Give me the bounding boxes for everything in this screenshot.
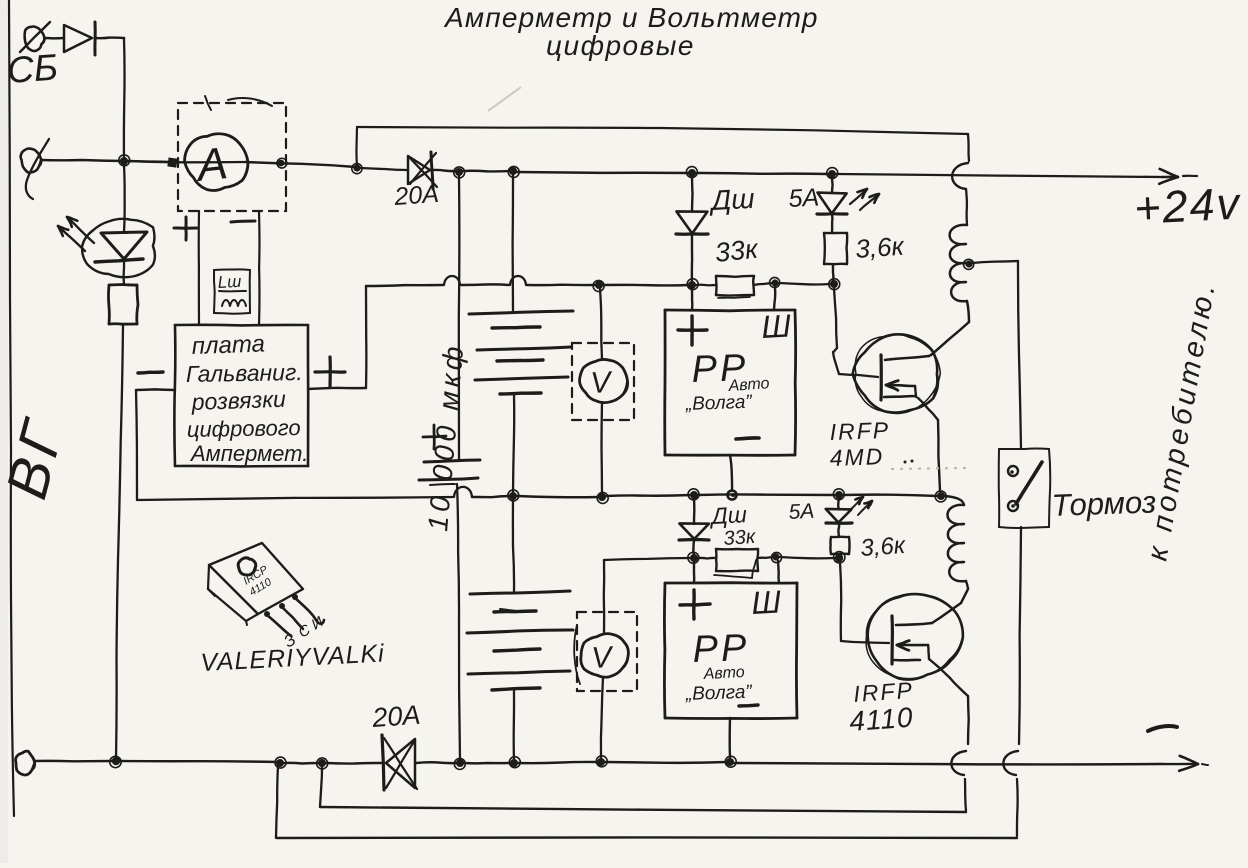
PP2 text Авто (702, 664, 745, 683)
battery GB1 plate1 long (469, 311, 573, 314)
MOSFET Q2 source arrow (894, 641, 929, 661)
wire 7L2 lead (837, 499, 840, 509)
svg-text:плата: плата (191, 330, 265, 360)
svg-text:Гальваниг.: Гальваниг. (186, 359, 303, 387)
wire tap corner down to switch (1018, 261, 1021, 448)
battery GB2 plate6 short (492, 688, 540, 690)
wire battery2 bottom stub (513, 690, 516, 761)
junction dot LED chain (110, 756, 121, 767)
MOSFET Q1 circle (853, 334, 941, 413)
label IRFP 4110 (848, 677, 914, 737)
wire 7L1 lead (831, 178, 834, 193)
svg-text:+24v: +24v (1133, 177, 1243, 234)
wire V2 top corner (604, 558, 691, 634)
wire 7L1 to R3.6k (831, 214, 834, 233)
wire mid bus seg2 (472, 496, 510, 497)
battery GB1 plate3 long (477, 347, 571, 350)
board minus sign (138, 372, 163, 373)
wire corner down to bus (123, 38, 126, 161)
wire G2 node to gate (840, 562, 889, 643)
svg-text:4МD: 4МD (829, 443, 884, 471)
terminal IN+ (21, 139, 49, 199)
wire mid bus end to coil2 (945, 496, 964, 505)
battery GB1 plate5 long (475, 377, 568, 380)
title line 2 цифровые (546, 30, 695, 61)
wire PP1 plus lead (691, 289, 694, 310)
svg-text:5А: 5А (788, 183, 820, 213)
svg-text:Ампермет.: Ампермет. (189, 441, 308, 466)
hop mid bus over cap (454, 487, 472, 497)
label +24v (1133, 177, 1243, 234)
MOSFET Q2 channel top (896, 623, 932, 625)
voltmeter V2 circle (581, 634, 629, 678)
capacitor C1 plate bottom (419, 478, 478, 485)
LED triangle (101, 232, 147, 259)
wire mid bus seg6 (843, 495, 938, 496)
wire board plus horizontal (366, 276, 596, 286)
wire PP2 minus lead (728, 718, 731, 758)
battery GB1 plate6 short (500, 393, 541, 394)
junction dot coil1 tap (964, 259, 974, 269)
junction dot node G1 (829, 279, 840, 290)
wire bottom bus seg3 (284, 762, 319, 765)
package pin labels ЗСИ (281, 613, 327, 651)
label 10 000 мкф (422, 341, 469, 532)
battery GB2 plate4 short (494, 649, 540, 651)
wire mid bus seg5 (698, 493, 836, 496)
wire cap top lead (458, 176, 461, 460)
wire node P2 to R33k2 (698, 557, 716, 560)
junction dot PP2 minus (725, 756, 736, 767)
wire bottom bus seg8 (605, 761, 726, 764)
voltmeter V2 dashed box (574, 612, 637, 691)
wire R33k to Sh node (754, 283, 772, 285)
wire top bus (outer) (357, 127, 968, 134)
wire bottom bus seg5 (416, 761, 456, 764)
wire board plus up (365, 286, 368, 388)
svg-text:3,6к: 3,6к (854, 231, 906, 264)
wire R3.6k2 to G2 node (839, 554, 842, 556)
wire Q1 source lead (918, 398, 940, 491)
wire V2 bottom lead (601, 677, 603, 759)
resistor R-led box (108, 285, 138, 325)
board text Гальваниг. (186, 359, 303, 387)
svg-text:20А: 20А (392, 180, 439, 211)
wire battery2 top stub (513, 500, 514, 592)
ammeter A meter circle (185, 134, 248, 191)
board plus sign (315, 357, 345, 387)
svg-text:Тормоз: Тормоз (1051, 484, 1157, 523)
junction dot A1 (119, 155, 130, 166)
switch Tormoz box (999, 448, 1051, 528)
wire G1 node to gate (833, 288, 878, 377)
junction dot inner loop (317, 758, 328, 769)
wire bus to battery tap (463, 170, 510, 173)
wire bus to +24V arrow (836, 174, 1162, 177)
junction dot node P2 (688, 552, 699, 563)
wire coil1 tap to corner (972, 261, 1018, 263)
wire outer loop bottom (277, 836, 1017, 839)
wire ammeter to junction (246, 162, 356, 167)
junction scribble G2 (834, 552, 845, 563)
wire coil1 to drain joint (931, 301, 969, 355)
wire board minus down to mid bus (136, 390, 137, 500)
hop Q2 source over bottom bus (951, 751, 966, 775)
label СБ (6, 47, 60, 91)
inductor L2 (lower coil) (948, 505, 969, 588)
junction dot Sh1 (770, 277, 780, 287)
PP1 plus sign (678, 316, 707, 345)
board text розвязки (190, 386, 286, 415)
regulator PP1 box (665, 310, 796, 455)
MOSFET Q1 gate bar (879, 355, 882, 400)
battery GB2 plate5 long (468, 671, 570, 674)
terminal SB (СБ) (20, 22, 50, 52)
junction dot 7L1 top (827, 168, 838, 179)
svg-text:цифровые: цифровые (546, 30, 695, 61)
wire V1 top lead (600, 289, 602, 359)
svg-text:СБ: СБ (6, 47, 60, 91)
junction dot cap top (454, 167, 465, 178)
LED arrows (58, 217, 94, 251)
faint dotted line near Q1 (891, 468, 968, 469)
ammeter dashed box (178, 96, 286, 211)
label ВГ rotated (0, 411, 77, 505)
label Дш 5А lower (708, 500, 815, 529)
svg-text:„Волга”: „Волга” (684, 682, 753, 705)
wire PP2 Sh lead (778, 561, 779, 583)
ammeter minus sign (231, 221, 255, 222)
wire after 20A diode (433, 170, 457, 171)
svg-text:Ш: Ш (750, 583, 782, 621)
wire bottom bus seg1 (34, 760, 113, 763)
wire hop to coil1 (966, 189, 967, 225)
junction dot V1 top (593, 280, 604, 291)
faint scratch mark (488, 87, 521, 111)
wire resistor down to bottom bus (116, 324, 123, 760)
wire board minus out (136, 388, 175, 391)
wire top bus right corner down (968, 134, 969, 161)
resistor R 3.6k upper box (824, 233, 847, 264)
svg-text:33к: 33к (723, 526, 758, 550)
wire battery1 top stub (511, 175, 514, 312)
junction dot Sh2 (771, 552, 781, 562)
connector blob at ammeter input (167, 157, 177, 167)
junction dot Dsh2 top (688, 489, 699, 500)
wire bottom bus seg6 (464, 762, 510, 765)
svg-text:„Волга”: „Волга” (684, 392, 753, 415)
hop over +24V wire (952, 163, 968, 189)
battery GB2 plate3 long (467, 630, 573, 633)
shunt label Lш (217, 272, 246, 292)
label 3,6к upper (854, 231, 906, 264)
voltmeter V1 circle (580, 359, 628, 402)
junction dot battery mid (508, 490, 519, 501)
wire bus Dsh1 to 7L1 (696, 173, 829, 174)
svg-text:Дш: Дш (708, 501, 748, 529)
wire mid bus seg3 (517, 496, 599, 497)
battery GB1 plate4 short (497, 360, 543, 361)
LED indicator blob (82, 219, 155, 277)
junction dot battery1 top (508, 166, 519, 177)
voltmeter V2 letter (591, 641, 616, 675)
wire Q2 source to inner loop (965, 779, 966, 811)
svg-text:5А: 5А (788, 500, 815, 524)
wire outer loop up left (276, 766, 278, 838)
switch lever (1016, 462, 1042, 504)
wire main plus bus segment 2 (361, 168, 407, 170)
wire PP1 Sh lead (774, 287, 775, 310)
wire Q1 drain (929, 355, 931, 356)
label Дш 5А upper (708, 183, 820, 216)
regulator PP2 box (664, 583, 797, 719)
PP1 letter Ш (760, 307, 792, 345)
svg-text:Авто: Авто (702, 664, 745, 683)
wire ammeter sense + (198, 211, 200, 325)
LED arrows 7L1 (850, 189, 879, 210)
wire inner loop up left (320, 766, 322, 807)
wire Dsh1 to node (691, 234, 694, 283)
fuse-diode 20A top (408, 152, 437, 189)
svg-text:Амперметр и Вольтметр: Амперметр и Вольтметр (443, 2, 819, 33)
MOSFET Q1 source arrow (884, 381, 916, 397)
PP2 letter Ш (750, 583, 782, 621)
wire switch down (1019, 527, 1021, 744)
svg-text:4110: 4110 (848, 702, 914, 737)
wire junction to ammeter connector (128, 161, 170, 162)
wire R3.6k to node (832, 264, 835, 282)
PP1 text Авто (727, 375, 770, 395)
wire Sh2 to G2 node (780, 557, 834, 558)
diode Dsh1 (Шоттки 5А) (676, 211, 708, 234)
wire R33k2 to Sh2 node (758, 557, 773, 558)
wire PP1 minus lead (730, 455, 732, 491)
wire ammeter sense - (258, 212, 261, 325)
diode Dsh2 (679, 523, 709, 540)
PP1 text РР (691, 347, 749, 391)
svg-text:цифрового: цифрового (187, 415, 301, 442)
label 20A bottom (370, 700, 421, 733)
arrowhead bottom bus out (1160, 756, 1208, 771)
svg-text:3,6к: 3,6к (860, 532, 908, 562)
wire bottom bus seg9 (734, 763, 1160, 764)
board text цифрового (187, 415, 301, 442)
wire board plus out (308, 388, 366, 389)
junction dot V2 bottom (596, 756, 607, 767)
label 20A top (392, 180, 439, 211)
battery GB2 plate1 long (470, 591, 570, 594)
wire V1 node to P1 node (603, 284, 689, 287)
voltmeter V1 letter (590, 366, 615, 400)
svg-text:IRFP: IRFP (829, 417, 890, 445)
diode 7L1 (817, 193, 847, 215)
LED arrows 7L2 (850, 497, 872, 515)
junction dot 7L2 top (833, 489, 844, 500)
wire LED to resistor (122, 261, 125, 285)
wire Dsh2 lead (693, 499, 696, 524)
signature VALERIYVALKI (200, 639, 386, 677)
voltmeter V1 dashed box (572, 343, 634, 420)
switch contact bottom (1008, 501, 1018, 511)
diode VD1 (from СБ) (64, 22, 95, 55)
switch contact top (1008, 466, 1018, 476)
shunt Lsh box (214, 269, 250, 313)
label 33к lower (723, 526, 758, 550)
PP2 plus sign (680, 590, 710, 619)
battery GB2 plate2 short (494, 609, 536, 612)
LED cathode bar (95, 259, 143, 262)
wire Dsh1 lead (691, 177, 694, 211)
terminal OUT- left (16, 751, 35, 775)
ammeter letter A (192, 137, 230, 191)
junction dot Dsh1 top (686, 167, 697, 178)
battery GB1 plate2 short (492, 327, 540, 328)
wire inner loop bottom (320, 807, 966, 812)
svg-text:Дш: Дш (708, 183, 756, 216)
junction dot Q1 source (935, 491, 946, 502)
wire PP2 plus lead (693, 562, 696, 583)
svg-text:33к: 33к (713, 234, 760, 268)
arrowhead +24V (1159, 169, 1197, 184)
wire junction to LED (123, 165, 126, 232)
capacitor plus sign (423, 425, 446, 449)
wire Sh1 node to G1 node (779, 283, 830, 285)
wire Dsh2 to node (692, 541, 695, 555)
dot at ammeter right (277, 158, 287, 168)
shunt coil squiggle (222, 300, 246, 306)
PP2 text РР (692, 627, 750, 671)
junction dot node P1 (687, 279, 698, 290)
junction dot battery2 bottom (509, 757, 520, 768)
wire switch to outer loop (1016, 779, 1019, 836)
wire battery1 bottom stub (513, 394, 514, 494)
junction dot top bus left (352, 164, 362, 174)
wire Q2 source lead (929, 659, 969, 744)
PP2 text Волга (684, 682, 753, 705)
wire bottom bus seg2 (120, 761, 277, 762)
label IRFP 4MD (829, 417, 913, 471)
wire node P1 to R33k (696, 284, 716, 287)
PP2 minus sign (739, 705, 758, 706)
hop switch wire over bottom bus (1003, 751, 1018, 775)
wire bottom bus seg7 (518, 762, 597, 763)
junction dot V1 bottom (597, 492, 608, 503)
wire mid bus left (137, 497, 453, 500)
wire Q2 drain lead (932, 589, 968, 623)
junction dot outer loop (275, 757, 286, 768)
wire top bus left drop (355, 127, 358, 166)
wire bus battery to Dsh1 (517, 172, 689, 173)
fuse-diode 20A bottom (382, 735, 417, 790)
resistor R 33k lower box (714, 549, 758, 578)
board text плата (191, 330, 265, 360)
galvanic isolation board box (174, 325, 308, 467)
label Тормоз (1051, 484, 1157, 523)
wire mid bus seg4 (606, 495, 691, 496)
PP1 minus sign (736, 438, 759, 439)
paper left edge line (9, 0, 14, 816)
wire V1 bottom lead (600, 402, 603, 494)
svg-text:20А: 20А (370, 700, 421, 733)
wire 7L2 to R3.6k2 (837, 523, 840, 537)
board text Ампермет. (189, 441, 308, 466)
transistor package sketch IRFP4110 (208, 543, 324, 636)
title line 1 Amperметр и Вольтметр (443, 2, 819, 33)
wire terminal IN+ to junction (41, 160, 123, 161)
inductor L1 (upper coil) (950, 225, 967, 301)
MOSFET Q2 circle (866, 594, 963, 680)
PP1 text Волга (684, 392, 753, 415)
svg-text:Lш: Lш (217, 272, 242, 292)
svg-text:Ш: Ш (760, 307, 792, 345)
wire terminal SB to diode (44, 37, 64, 40)
svg-text:розвязки: розвязки (190, 386, 286, 415)
wire diode VD1 to corner (95, 36, 124, 39)
junction dot cap bottom (454, 758, 465, 769)
tick above bottom arrow (1148, 726, 1177, 731)
label к потребителю rotated (1141, 278, 1222, 563)
ammeter plus sign (174, 217, 197, 240)
resistor R 33k upper box (716, 276, 754, 298)
wire bottom bus seg4 (326, 762, 381, 765)
label 3,6к lower (860, 532, 908, 562)
junction ring PP1 minus (728, 491, 737, 500)
wire main plus bus (128, 161, 246, 162)
wire cap bottom lead (457, 484, 460, 760)
MOSFET Q2 gate bar (890, 616, 894, 664)
diode 7L2 (826, 509, 852, 523)
label 33к upper (713, 234, 760, 268)
MOSFET Q1 channel top (885, 356, 929, 360)
capacitor C1 plate top (424, 460, 480, 462)
resistor R 3.6k lower box (830, 537, 849, 554)
